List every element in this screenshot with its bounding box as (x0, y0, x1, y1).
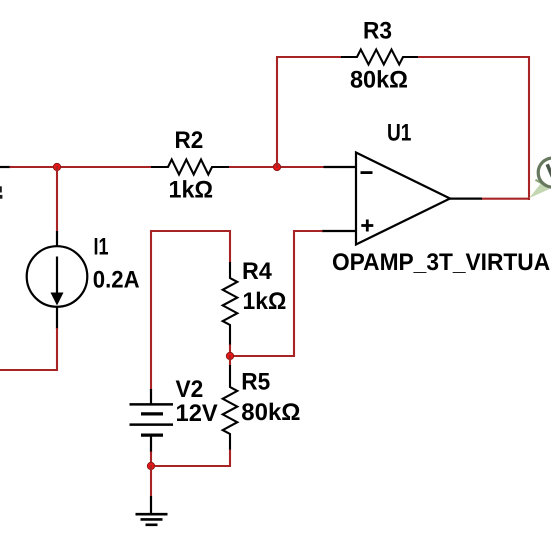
wire: black op-amp inverting input lead (324, 166, 357, 168)
plus sign of op-amp (361, 224, 373, 227)
wire: red output wire (481, 198, 530, 200)
resistor R4 (223, 262, 238, 346)
ground (150, 496, 152, 514)
node: junction dot at divider node (230,356) (226, 352, 233, 359)
svg-text:I1: I1 (94, 234, 109, 261)
wire: red vertical from junction up to feedback rail (276, 56, 278, 168)
wire: red wire battery bottom to ground junction (150, 452, 152, 468)
svg-text:R3: R3 (363, 17, 392, 44)
wire: off-screen component lead stub at left edge, y=167 (0, 166, 11, 168)
wire: top feedback rail left segment (276, 56, 342, 58)
svg-text:80kΩ: 80kΩ (241, 399, 300, 426)
wire: red stub node to R5 top (229, 355, 231, 366)
minus sign of op-amp (361, 171, 373, 174)
wire: red wire to non-inverting input (293, 230, 323, 232)
svg-text:0.2A: 0.2A (93, 267, 140, 294)
wire: red vertical of non-inverting branch (293, 230, 295, 357)
wire: red horizontal into divider node (229, 355, 295, 357)
svg-text:OPAMP_3T_VIRTUAL: OPAMP_3T_VIRTUAL (332, 249, 551, 276)
node: junction dot at (277,167) (273, 163, 280, 170)
wire: red wire R2 to op-amp input node (229, 166, 325, 168)
wire: red vertical from junction down to I1 (56, 166, 58, 232)
wire: red stub R4 bottom to node (229, 345, 231, 358)
wire: red wire junction down to ground lead (150, 465, 152, 497)
svg-text:U1: U1 (387, 119, 411, 146)
svg-text:1kΩ: 1kΩ (169, 177, 214, 204)
svg-text:R4: R4 (242, 258, 272, 285)
battery V2 (150, 389, 152, 404)
label fragment: omega of off-screen resistor value label (0, 186, 2, 192)
svg-text:1kΩ: 1kΩ (243, 288, 287, 315)
wire: red wire from I1 down and out left edge (0, 328, 57, 370)
svg-text:R2: R2 (175, 127, 204, 154)
resistor R3 (341, 50, 419, 65)
svg-text:R5: R5 (241, 369, 270, 396)
wire: red wire R5 bottom to bottom rail (151, 450, 230, 467)
wire: top feedback rail right segment (418, 56, 530, 58)
node: junction dot at (151,466) (147, 462, 154, 469)
resistor R5 (223, 365, 238, 451)
current source I1 (56, 231, 58, 246)
wire: black op-amp output lead (449, 198, 482, 200)
wire: black op-amp non-inverting input lead (322, 230, 357, 232)
probe: voltage probe at output (partially off-canvas) (529, 181, 550, 199)
op-amp U1 (356, 153, 450, 245)
wire: right vertical feedback wire down to output (528, 56, 530, 200)
svg-text:80kΩ: 80kΩ (350, 67, 408, 94)
node: junction dot at (57,167) (53, 163, 60, 170)
svg-text:V2: V2 (176, 376, 204, 403)
svg-text:12V: 12V (176, 400, 218, 427)
wire: divider top rail from battery column to R4 (151, 231, 230, 390)
wire: left horizontal red wire into R2 (10, 166, 152, 168)
resistor R2 (151, 160, 230, 175)
